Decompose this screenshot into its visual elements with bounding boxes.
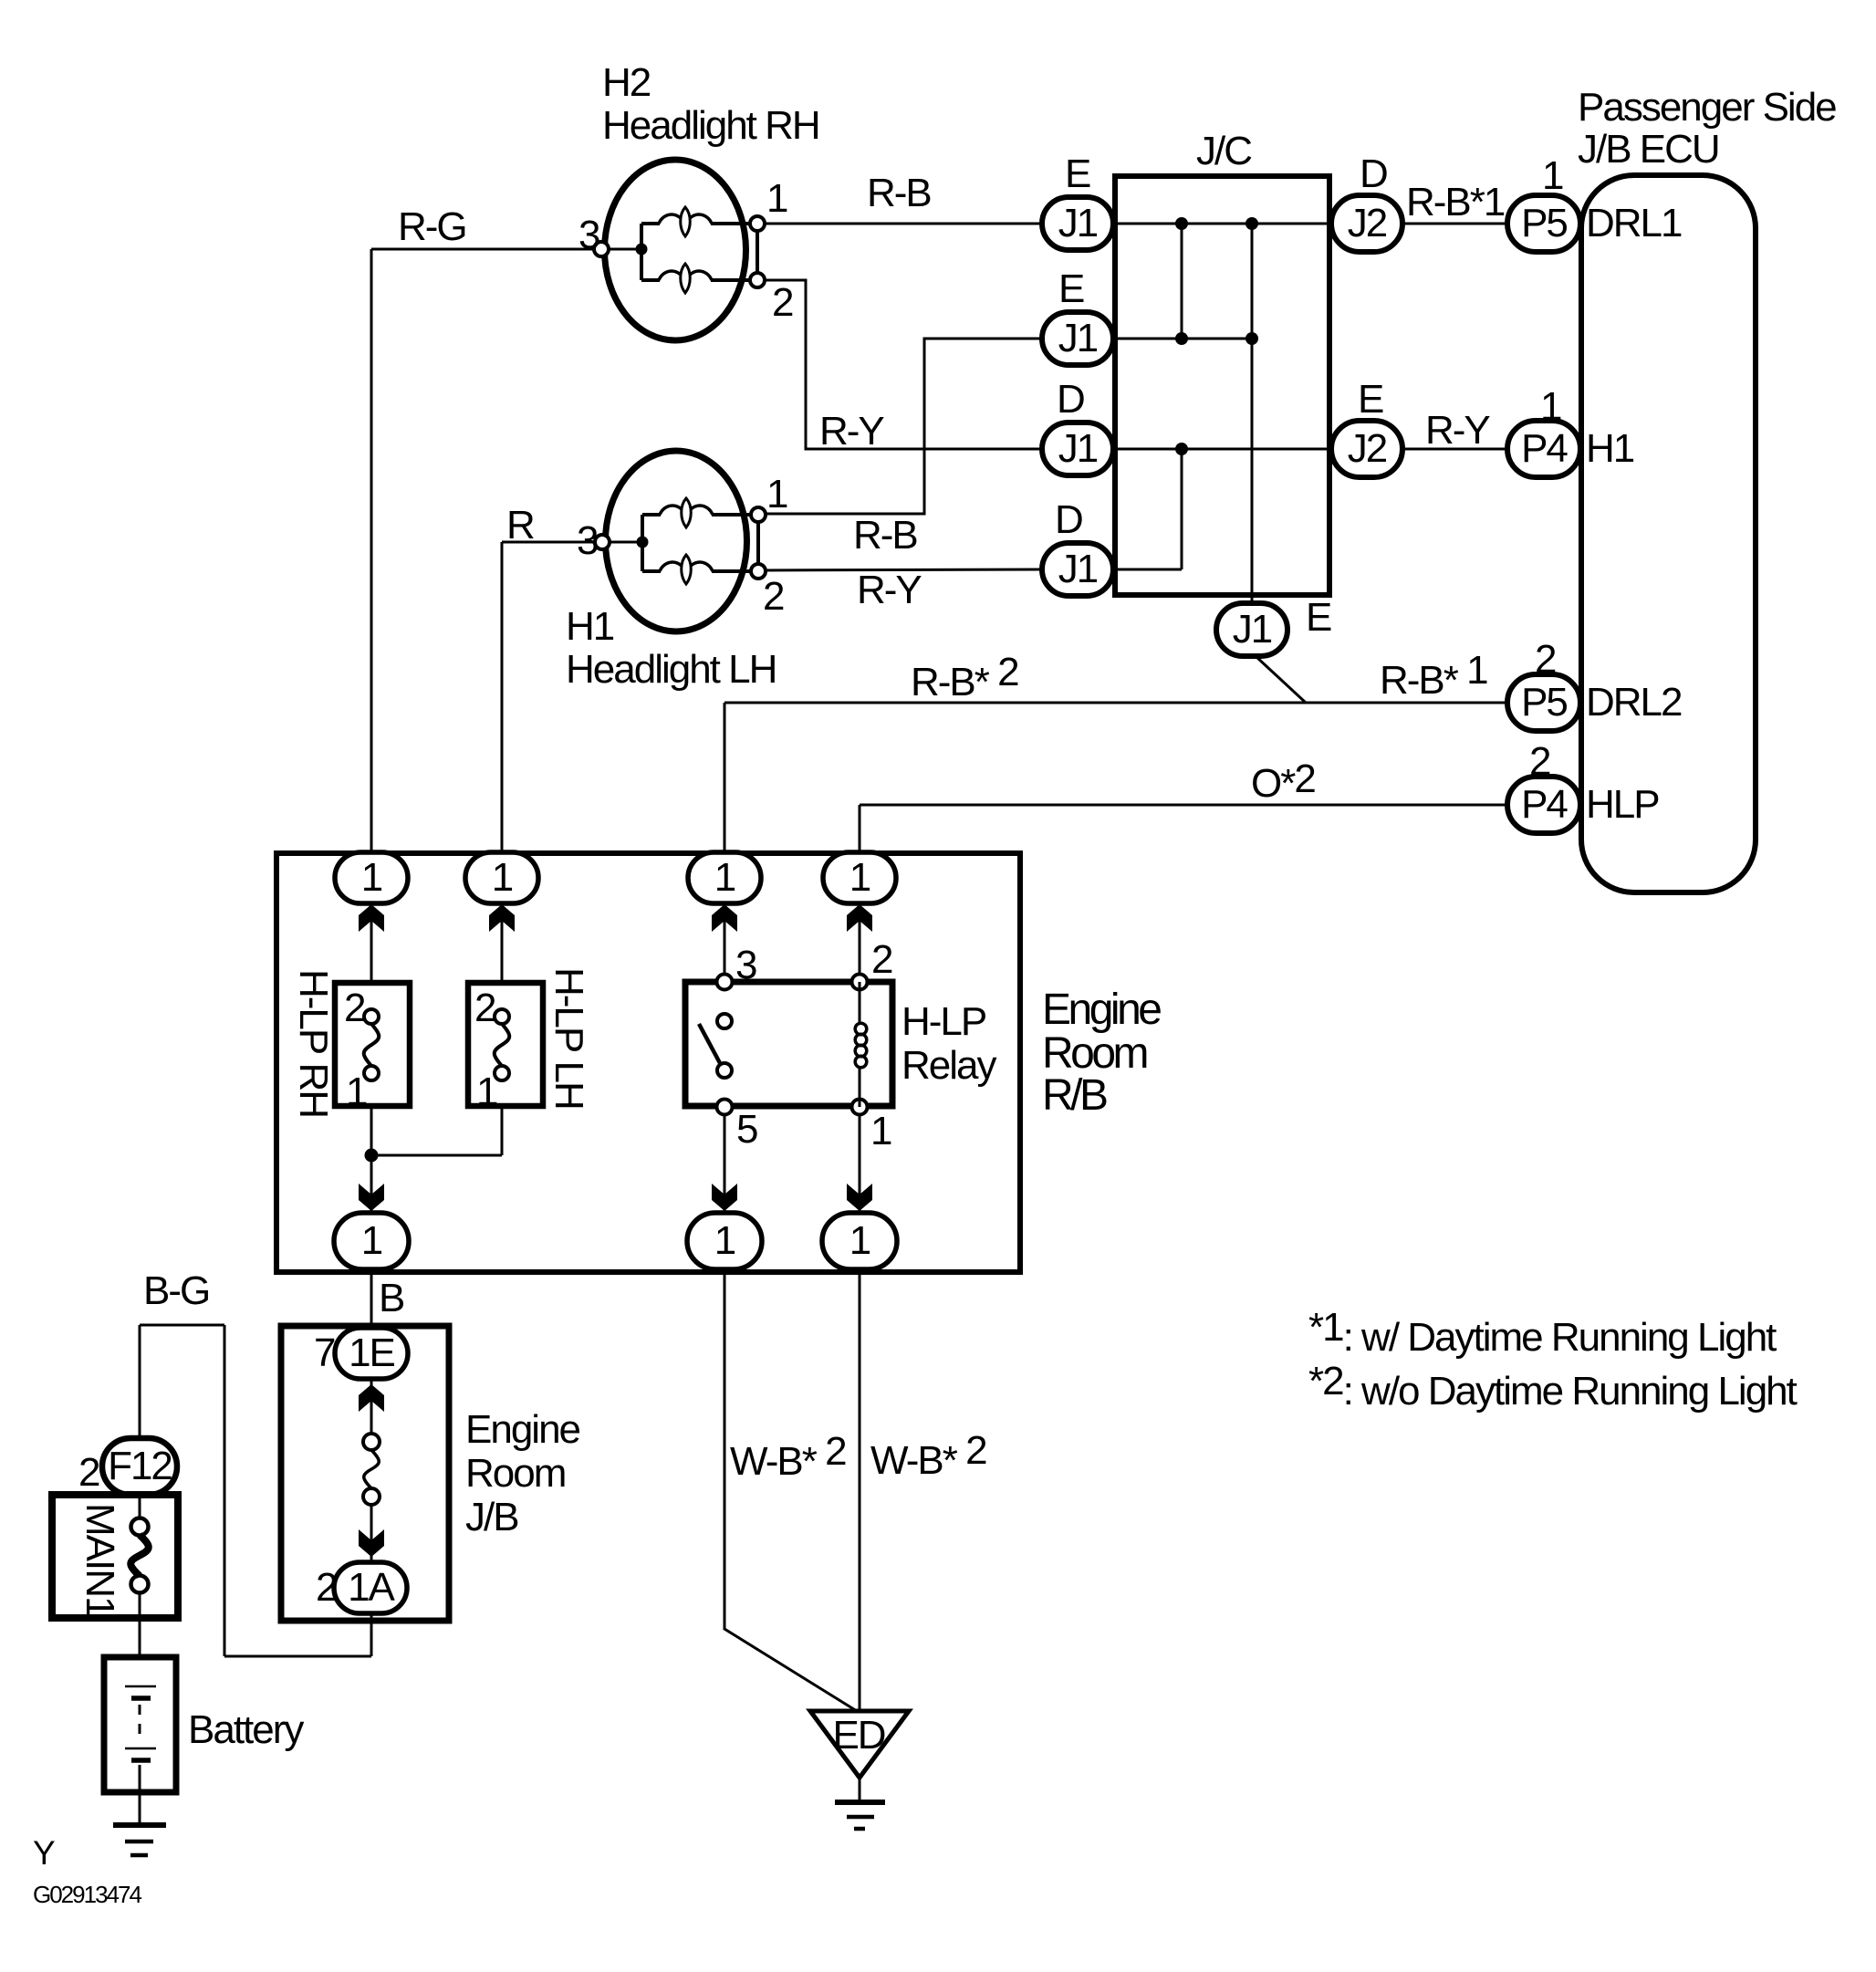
svg-text:P4: P4 xyxy=(1521,426,1568,471)
svg-text:R: R xyxy=(506,503,534,548)
svg-text:2: 2 xyxy=(1535,637,1556,682)
svg-text:2: 2 xyxy=(871,937,892,982)
svg-text:E: E xyxy=(1306,595,1331,640)
svg-text:2: 2 xyxy=(1529,739,1550,784)
svg-text:F12: F12 xyxy=(108,1444,172,1488)
svg-text:H-LP LH: H-LP LH xyxy=(547,967,591,1109)
svg-text:3: 3 xyxy=(735,943,756,987)
svg-text:1: 1 xyxy=(492,855,513,900)
svg-text:J1: J1 xyxy=(1058,201,1098,245)
svg-text:E: E xyxy=(1358,377,1383,422)
svg-text:H-LP: H-LP xyxy=(902,999,986,1044)
svg-text:1: 1 xyxy=(1540,384,1561,429)
svg-text:2: 2 xyxy=(78,1450,99,1495)
svg-text:J/B: J/B xyxy=(465,1495,518,1539)
svg-text:J1: J1 xyxy=(1058,547,1098,591)
svg-text:Relay: Relay xyxy=(902,1043,996,1088)
svg-text:Headlight RH: Headlight RH xyxy=(602,103,819,148)
svg-text:Room: Room xyxy=(465,1451,565,1496)
svg-text:J1: J1 xyxy=(1058,426,1098,471)
svg-text:R-Y: R-Y xyxy=(1425,408,1490,453)
svg-text:1: 1 xyxy=(766,472,787,516)
svg-text:1: 1 xyxy=(849,1218,870,1263)
svg-text:1: 1 xyxy=(870,1109,891,1153)
svg-text:J/C: J/C xyxy=(1196,129,1252,173)
svg-text:R-Y: R-Y xyxy=(819,409,884,454)
svg-text:R-B*1: R-B*1 xyxy=(1406,180,1505,224)
svg-text:R-G: R-G xyxy=(398,204,466,249)
svg-text:B: B xyxy=(379,1276,404,1320)
svg-text:Engine: Engine xyxy=(465,1407,580,1452)
svg-text:D: D xyxy=(1055,497,1082,542)
svg-text:1E: 1E xyxy=(349,1330,394,1375)
svg-text:D: D xyxy=(1360,151,1387,196)
svg-text:1: 1 xyxy=(849,855,870,900)
svg-text:DRL2: DRL2 xyxy=(1586,680,1682,725)
svg-text:H1: H1 xyxy=(1586,426,1634,471)
svg-text:R-B: R-B xyxy=(867,171,931,215)
svg-text:D: D xyxy=(1057,377,1084,422)
svg-text:Passenger Side: Passenger Side xyxy=(1578,85,1836,130)
svg-text:H1: H1 xyxy=(566,604,614,649)
svg-text:J1: J1 xyxy=(1058,316,1098,360)
svg-text:J2: J2 xyxy=(1348,201,1387,245)
svg-text:P5: P5 xyxy=(1521,680,1567,725)
svg-text:1: 1 xyxy=(361,1218,382,1263)
svg-text:2: 2 xyxy=(763,574,784,619)
svg-text:1A: 1A xyxy=(348,1565,395,1610)
svg-text:2: 2 xyxy=(772,280,793,325)
svg-text:O*2: O*2 xyxy=(1251,756,1315,806)
svg-text:R-Y: R-Y xyxy=(857,568,922,612)
svg-text:J2: J2 xyxy=(1348,426,1387,471)
svg-text:2: 2 xyxy=(474,986,495,1030)
svg-text:P5: P5 xyxy=(1521,201,1567,245)
svg-text:1: 1 xyxy=(361,855,382,900)
svg-text:DRL1: DRL1 xyxy=(1586,201,1682,245)
svg-text:Battery: Battery xyxy=(188,1707,304,1752)
svg-text:1: 1 xyxy=(714,1218,735,1263)
svg-text:H-LP RH: H-LP RH xyxy=(291,969,336,1117)
svg-text:P4: P4 xyxy=(1521,782,1568,827)
svg-text:3: 3 xyxy=(578,213,599,257)
svg-text:Engine: Engine xyxy=(1042,986,1161,1034)
svg-text:7: 7 xyxy=(314,1330,335,1375)
svg-text:Y: Y xyxy=(33,1834,55,1872)
svg-text:B-G: B-G xyxy=(143,1268,209,1313)
svg-text:1: 1 xyxy=(476,1069,497,1114)
svg-text:1: 1 xyxy=(714,855,735,900)
svg-text:J/B ECU: J/B ECU xyxy=(1578,127,1719,172)
svg-text:3: 3 xyxy=(577,518,598,563)
svg-text:HLP: HLP xyxy=(1586,782,1659,827)
svg-text:2: 2 xyxy=(344,986,365,1030)
svg-text:ED: ED xyxy=(832,1713,884,1758)
svg-text:E: E xyxy=(1065,151,1090,196)
svg-text:R/B: R/B xyxy=(1042,1071,1107,1120)
svg-text:5: 5 xyxy=(736,1107,757,1152)
svg-text:G02913474: G02913474 xyxy=(33,1881,141,1908)
svg-text:2: 2 xyxy=(316,1565,337,1610)
svg-text:1: 1 xyxy=(1542,153,1563,198)
svg-text:J1: J1 xyxy=(1233,607,1272,652)
svg-text:H2: H2 xyxy=(602,60,651,105)
svg-text:R-B: R-B xyxy=(853,513,917,558)
svg-text:MAIN1: MAIN1 xyxy=(78,1503,122,1617)
svg-text:E: E xyxy=(1058,266,1084,311)
svg-text:1: 1 xyxy=(346,1069,367,1114)
svg-text:1: 1 xyxy=(766,176,787,221)
svg-text:Headlight LH: Headlight LH xyxy=(566,647,776,692)
